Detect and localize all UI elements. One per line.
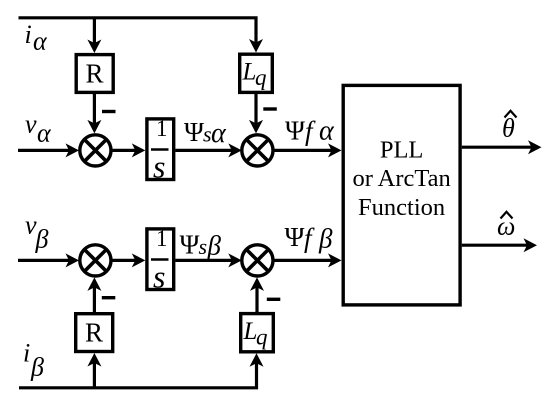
wire v_alpha input (18, 149, 73, 152)
svg-text:i: i (23, 339, 30, 368)
arrowhead theta-hat output (528, 140, 542, 154)
arrowhead into R (top) (87, 40, 101, 54)
svg-text:s: s (153, 149, 165, 185)
block PLL or ArcTan Function (343, 85, 460, 305)
minus sign at summing junction 2 (263, 107, 277, 110)
svg-text:α: α (211, 118, 227, 149)
arrowhead into summing junction 1 (87, 120, 101, 133)
svg-text:β: β (207, 231, 222, 261)
summing junction 2 (242, 135, 273, 166)
wire bottom bus i-beta (19, 360, 257, 388)
svg-text:α: α (37, 119, 52, 148)
summing junction 3 (80, 245, 111, 276)
label i_beta (23, 339, 44, 382)
minus sign at summing junction 4 (267, 298, 281, 301)
arrowhead into integrator (beta) (132, 253, 146, 267)
arrowhead v_alpha into summing junction 1 (66, 143, 80, 157)
wire summing junction 3 to integrator (beta) (112, 259, 140, 262)
svg-text:Ψ: Ψ (285, 222, 305, 252)
svg-text:β: β (35, 225, 49, 254)
wire branch up to R (bottom) (93, 360, 96, 388)
label psi_f_alpha (285, 116, 335, 147)
label v_beta (25, 211, 49, 254)
svg-text:s: s (199, 234, 208, 259)
svg-text:ω: ω (497, 212, 515, 241)
wire Lq (bottom) to summing junction 4 (255, 283, 258, 312)
svg-text:q: q (255, 65, 267, 90)
svg-text:1: 1 (156, 116, 168, 141)
summing junction 4 (242, 245, 273, 276)
label Lq in block (bottom) (243, 318, 268, 350)
wire integrator to summing junction 2 (175, 149, 236, 152)
svg-text:1: 1 (156, 226, 168, 251)
svg-text:Function: Function (358, 194, 445, 221)
svg-text:R: R (86, 59, 104, 89)
block Lq (bottom) (241, 314, 274, 352)
block R (top) (76, 55, 113, 93)
arrowhead up into Lq (bottom) (250, 353, 264, 367)
arrowhead v_beta into summing junction 3 (66, 253, 80, 267)
svg-text:α: α (319, 116, 335, 147)
block integrator 1/s (alpha) (147, 116, 174, 185)
arrowhead into integrator (alpha) (132, 143, 146, 157)
wire v_beta input (18, 259, 73, 262)
svg-text:or ArcTan: or ArcTan (352, 165, 450, 192)
svg-text:PLL: PLL (380, 137, 424, 164)
arrowhead omega-hat output (524, 238, 538, 252)
svg-text:θ: θ (502, 114, 515, 143)
label v_alpha (25, 110, 52, 148)
wire summing junction 2 to PLL (274, 149, 336, 152)
wire top bus i-alpha (19, 18, 257, 47)
wire Lq to summing junction 2 (254, 94, 257, 128)
wire summing junction 1 to integrator (112, 149, 140, 152)
svg-text:β: β (30, 353, 44, 382)
block Lq (top) (240, 54, 273, 92)
block integrator 1/s (beta) (147, 226, 174, 295)
svg-text:α: α (33, 27, 48, 56)
svg-text:R: R (85, 318, 103, 348)
svg-text:Ψ: Ψ (285, 116, 305, 146)
svg-text:Ψ: Ψ (184, 117, 204, 147)
svg-text:s: s (153, 259, 165, 295)
arrowhead into summing junction 2 (249, 120, 263, 133)
arrowhead up into summing junction 4 (250, 277, 264, 291)
svg-text:v: v (25, 110, 37, 139)
svg-text:Ψ: Ψ (180, 230, 200, 260)
wire branch down to R (top) (93, 18, 96, 47)
svg-text:q: q (256, 325, 268, 350)
wire R to summing junction 1 (93, 94, 96, 128)
wire R (bottom) to summing junction 3 (93, 283, 96, 312)
minus sign at summing junction 3 (102, 296, 116, 299)
arrowhead up into R (bottom) (87, 353, 101, 367)
wire omega-hat output (462, 244, 532, 247)
svg-text:β: β (318, 224, 333, 254)
label i_alpha (25, 20, 49, 56)
block R (bottom) (76, 314, 113, 352)
label omega-hat (497, 212, 515, 241)
svg-text:i: i (25, 20, 32, 49)
arrowhead up into summing junction 3 (87, 277, 101, 291)
wire summing junction 4 to PLL (274, 259, 336, 262)
label psi_s_beta (180, 230, 222, 261)
label psi_f_beta (285, 222, 334, 254)
minus sign at summing junction 1 (102, 110, 116, 113)
arrowhead into summing junction 2 (horizontal) (228, 143, 242, 157)
wire theta-hat output (462, 146, 536, 149)
summing junction 1 (80, 135, 111, 166)
label psi_s_alpha (184, 117, 227, 149)
label Lq in block (top) (242, 59, 267, 91)
arrowhead into PLL (beta) (328, 253, 342, 267)
arrowhead into Lq (top) (249, 39, 263, 53)
arrowhead into PLL (alpha) (328, 143, 342, 157)
arrowhead into summing junction 4 (horizontal) (228, 253, 242, 267)
wire integrator to summing junction 4 (175, 259, 236, 262)
label theta-hat (502, 111, 517, 143)
